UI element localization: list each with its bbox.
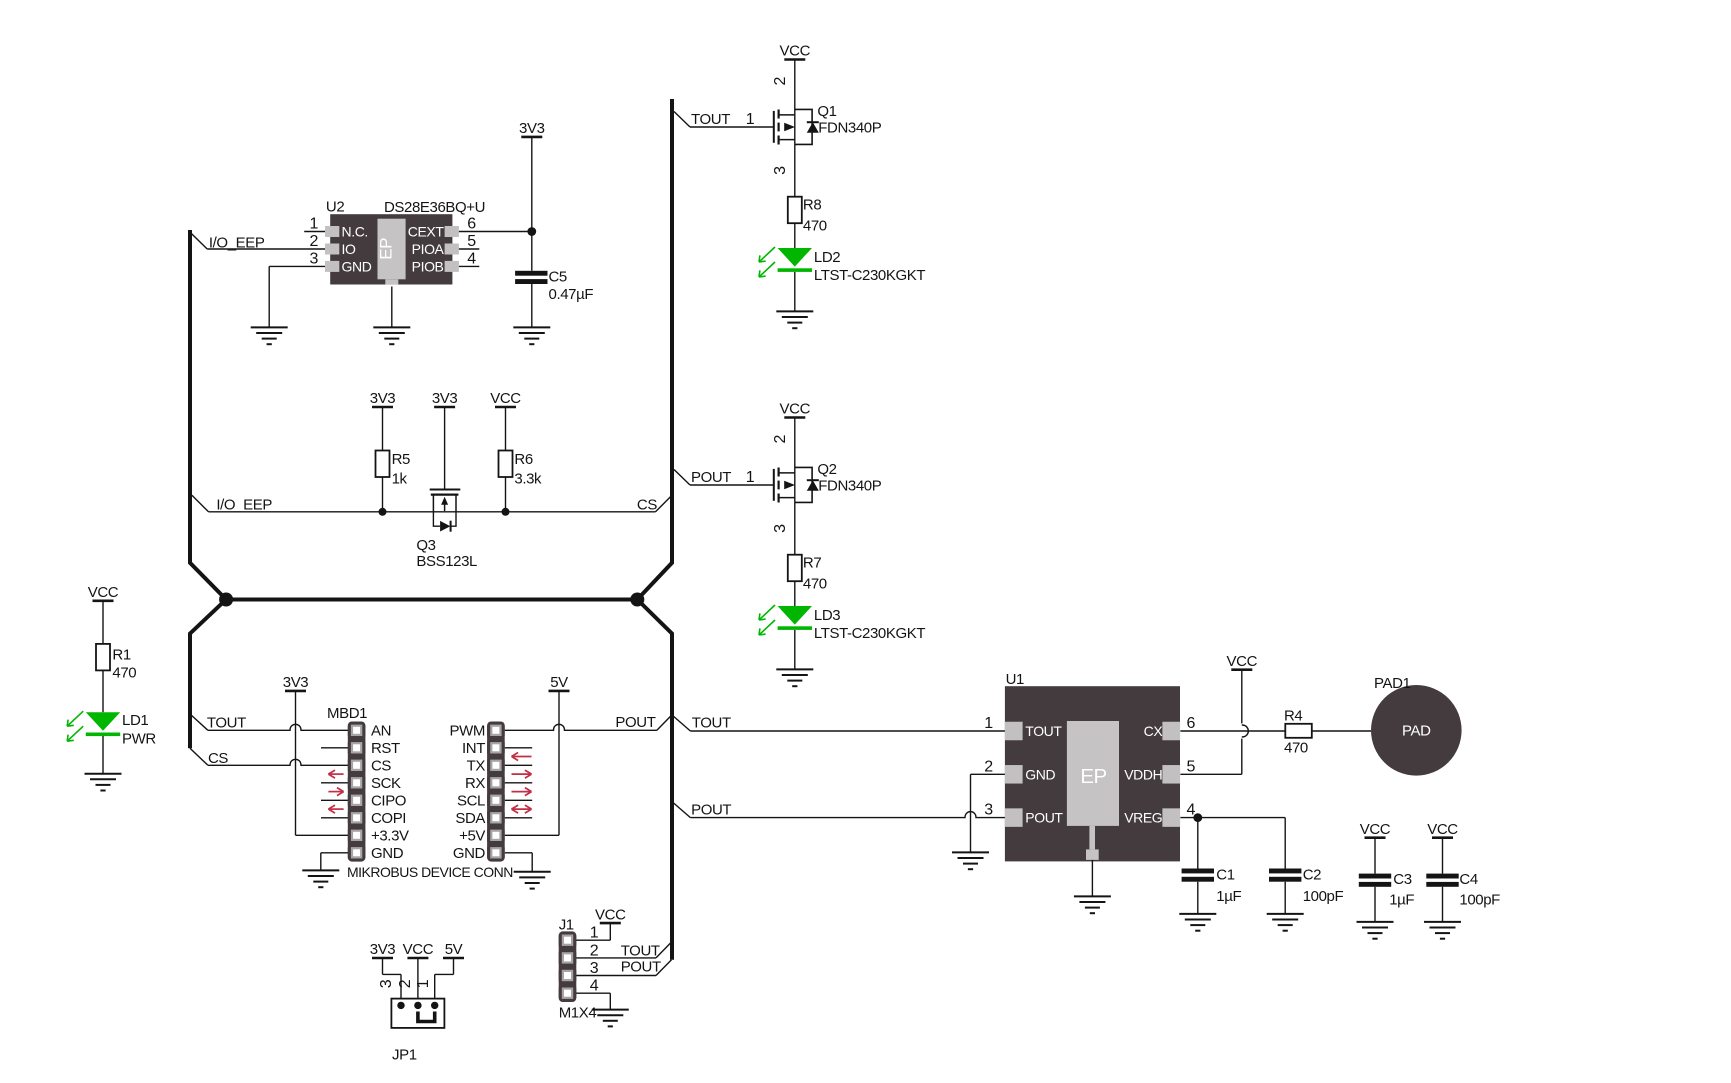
svg-text:3: 3 [772, 524, 789, 533]
svg-text:PIOB: PIOB [412, 258, 444, 274]
svg-text:3: 3 [984, 802, 993, 819]
svg-text:CEXT: CEXT [408, 224, 445, 240]
svg-text:MBD1: MBD1 [327, 705, 367, 722]
svg-text:SCK: SCK [371, 775, 401, 792]
svg-text:C4: C4 [1459, 871, 1477, 888]
svg-text:1µF: 1µF [1216, 888, 1241, 905]
svg-text:CIPO: CIPO [371, 793, 406, 810]
svg-text:C2: C2 [1303, 866, 1321, 883]
svg-text:LD1: LD1 [122, 712, 148, 729]
svg-text:VCC: VCC [1227, 653, 1258, 670]
svg-text:GND: GND [453, 845, 486, 862]
svg-text:U1: U1 [1006, 671, 1024, 688]
svg-text:5V: 5V [550, 674, 568, 691]
svg-text:470: 470 [112, 665, 136, 682]
svg-text:VCC: VCC [88, 584, 119, 601]
svg-text:0.47µF: 0.47µF [549, 286, 594, 303]
svg-text:3V3: 3V3 [370, 390, 396, 407]
svg-text:5: 5 [1187, 758, 1196, 775]
svg-text:SCL: SCL [457, 793, 485, 810]
svg-text:2: 2 [397, 979, 414, 988]
svg-text:2: 2 [984, 758, 993, 775]
svg-text:IO: IO [342, 241, 356, 257]
svg-text:VREG: VREG [1124, 810, 1162, 826]
svg-text:R6: R6 [514, 451, 532, 468]
svg-text:1k: 1k [392, 471, 408, 488]
svg-text:1: 1 [746, 469, 755, 486]
svg-text:JP1: JP1 [392, 1047, 417, 1064]
svg-text:C3: C3 [1393, 871, 1411, 888]
svg-text:2: 2 [772, 434, 789, 443]
svg-text:RST: RST [371, 740, 400, 757]
svg-text:I/O_EEP: I/O_EEP [216, 496, 272, 513]
svg-text:R8: R8 [803, 197, 821, 214]
svg-text:POUT: POUT [615, 714, 655, 731]
svg-text:LD2: LD2 [814, 249, 840, 266]
svg-text:4: 4 [467, 250, 476, 267]
svg-text:+3.3V: +3.3V [371, 828, 409, 845]
svg-text:TX: TX [467, 758, 486, 775]
svg-text:R1: R1 [112, 646, 130, 663]
svg-text:POUT: POUT [1025, 810, 1063, 826]
svg-text:VCC: VCC [595, 906, 626, 923]
svg-text:1: 1 [309, 216, 318, 233]
svg-text:3: 3 [309, 250, 318, 267]
svg-text:U2: U2 [326, 199, 344, 216]
svg-text:PWR: PWR [122, 731, 156, 748]
svg-text:RX: RX [465, 775, 485, 792]
svg-text:2: 2 [772, 76, 789, 85]
svg-text:I/O_EEP: I/O_EEP [209, 235, 265, 252]
svg-text:J1: J1 [559, 917, 574, 934]
svg-text:4: 4 [590, 978, 599, 995]
svg-text:Q3: Q3 [416, 537, 435, 554]
svg-text:PAD: PAD [1402, 723, 1431, 740]
svg-text:6: 6 [467, 216, 476, 233]
svg-text:TOUT: TOUT [1025, 723, 1062, 739]
svg-text:2: 2 [590, 942, 599, 959]
svg-text:BSS123L: BSS123L [416, 553, 477, 570]
svg-text:470: 470 [803, 576, 827, 593]
svg-text:1: 1 [746, 111, 755, 128]
svg-text:VCC: VCC [780, 401, 811, 418]
svg-text:VDDH: VDDH [1124, 766, 1162, 782]
svg-text:100pF: 100pF [1303, 888, 1344, 905]
svg-text:GND: GND [1025, 766, 1055, 782]
svg-text:TOUT: TOUT [621, 942, 660, 959]
svg-text:3.3k: 3.3k [514, 471, 542, 488]
svg-text:+5V: +5V [459, 828, 485, 845]
svg-text:3V3: 3V3 [370, 941, 396, 958]
svg-text:POUT: POUT [621, 958, 661, 975]
svg-text:MIKROBUS DEVICE CONN: MIKROBUS DEVICE CONN [347, 864, 513, 880]
svg-text:TOUT: TOUT [692, 715, 731, 732]
svg-text:VCC: VCC [780, 43, 811, 60]
svg-text:100pF: 100pF [1459, 892, 1500, 909]
svg-text:470: 470 [803, 218, 827, 235]
svg-text:VCC: VCC [403, 941, 434, 958]
svg-text:3: 3 [590, 960, 599, 977]
svg-text:M1X4: M1X4 [559, 1004, 597, 1021]
svg-text:470: 470 [1284, 739, 1308, 756]
svg-text:6: 6 [1187, 715, 1196, 732]
svg-text:EP: EP [377, 238, 396, 260]
svg-text:2: 2 [309, 233, 318, 250]
svg-text:N.C.: N.C. [342, 224, 368, 240]
svg-text:1µF: 1µF [1389, 892, 1414, 909]
svg-text:FDN340P: FDN340P [818, 120, 881, 137]
svg-text:C1: C1 [1216, 866, 1234, 883]
svg-text:1: 1 [984, 715, 993, 732]
svg-text:LTST-C230KGKT: LTST-C230KGKT [814, 625, 925, 642]
svg-text:VCC: VCC [1360, 821, 1391, 838]
svg-text:POUT: POUT [691, 469, 731, 486]
svg-text:LTST-C230KGKT: LTST-C230KGKT [814, 267, 925, 284]
svg-text:5: 5 [467, 233, 476, 250]
svg-text:PIOA: PIOA [412, 241, 445, 257]
svg-text:GND: GND [371, 845, 404, 862]
svg-text:TOUT: TOUT [691, 111, 730, 128]
svg-text:R7: R7 [803, 555, 821, 572]
svg-text:1: 1 [415, 979, 432, 988]
svg-text:Q1: Q1 [817, 103, 836, 120]
svg-text:VCC: VCC [490, 390, 521, 407]
svg-text:PWM: PWM [450, 723, 485, 740]
svg-text:CX: CX [1144, 723, 1164, 739]
svg-text:3V3: 3V3 [432, 390, 458, 407]
svg-text:COPI: COPI [371, 810, 406, 827]
svg-text:R5: R5 [392, 451, 410, 468]
svg-text:CS: CS [371, 758, 391, 775]
svg-text:1: 1 [590, 925, 599, 942]
svg-text:GND: GND [342, 258, 372, 274]
svg-text:CS: CS [637, 497, 657, 514]
svg-text:AN: AN [371, 723, 391, 740]
svg-text:LD3: LD3 [814, 607, 840, 624]
svg-text:R4: R4 [1284, 708, 1302, 725]
svg-text:INT: INT [462, 740, 485, 757]
svg-text:VCC: VCC [1427, 821, 1458, 838]
svg-text:Q2: Q2 [817, 461, 836, 478]
svg-text:3: 3 [378, 979, 395, 988]
svg-text:C5: C5 [549, 269, 567, 286]
svg-text:FDN340P: FDN340P [818, 478, 881, 495]
svg-text:3V3: 3V3 [519, 120, 545, 137]
svg-text:EP: EP [1080, 765, 1106, 788]
svg-text:CS: CS [208, 750, 228, 767]
svg-text:PAD1: PAD1 [1374, 675, 1411, 692]
svg-text:DS28E36BQ+U: DS28E36BQ+U [384, 199, 485, 216]
svg-text:SDA: SDA [455, 810, 485, 827]
svg-text:POUT: POUT [691, 801, 731, 818]
svg-text:TOUT: TOUT [207, 715, 246, 732]
svg-text:3: 3 [772, 166, 789, 175]
svg-text:3V3: 3V3 [283, 674, 309, 691]
svg-text:5V: 5V [445, 941, 463, 958]
